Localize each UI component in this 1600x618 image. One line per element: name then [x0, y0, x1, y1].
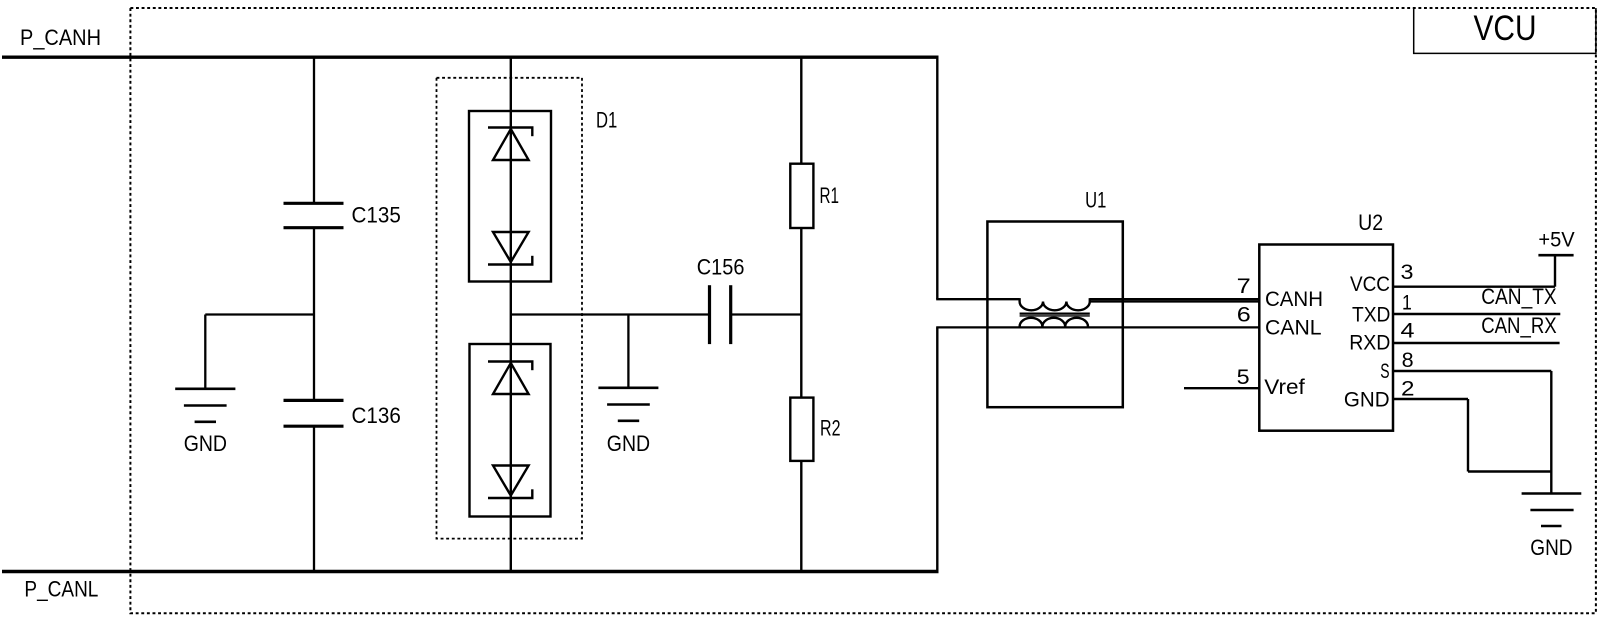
svg-text:C136: C136 [352, 403, 401, 428]
svg-text:3: 3 [1401, 261, 1414, 284]
svg-text:C156: C156 [697, 254, 745, 279]
svg-text:6: 6 [1237, 303, 1251, 326]
svg-text:R2: R2 [820, 416, 841, 441]
svg-text:RXD: RXD [1349, 331, 1390, 355]
svg-text:4: 4 [1401, 320, 1415, 343]
svg-text:CAN_RX: CAN_RX [1481, 313, 1557, 338]
svg-text:GND: GND [1344, 387, 1390, 411]
svg-text:TXD: TXD [1352, 302, 1390, 326]
svg-text:CANH: CANH [1265, 287, 1323, 311]
svg-text:P_CANL: P_CANL [24, 576, 98, 601]
svg-text:CANL: CANL [1265, 315, 1322, 339]
svg-text:GND: GND [1530, 535, 1572, 560]
svg-text:R1: R1 [820, 183, 840, 208]
svg-text:U1: U1 [1085, 188, 1106, 213]
svg-text:GND: GND [607, 431, 650, 456]
svg-text:8: 8 [1402, 349, 1414, 372]
svg-text:7: 7 [1237, 275, 1251, 298]
svg-text:2: 2 [1401, 378, 1415, 401]
svg-text:C135: C135 [352, 203, 401, 228]
svg-text:Vref: Vref [1264, 375, 1305, 399]
svg-text:U2: U2 [1358, 210, 1383, 235]
svg-text:S: S [1380, 359, 1389, 383]
svg-text:VCC: VCC [1350, 272, 1390, 296]
svg-text:GND: GND [184, 431, 227, 456]
svg-text:+5V: +5V [1538, 228, 1574, 251]
svg-text:CAN_TX: CAN_TX [1481, 284, 1557, 309]
svg-text:VCU: VCU [1474, 9, 1537, 48]
svg-text:P_CANH: P_CANH [20, 25, 101, 50]
svg-text:D1: D1 [596, 108, 617, 133]
svg-text:1: 1 [1402, 291, 1412, 314]
svg-text:5: 5 [1237, 366, 1250, 389]
